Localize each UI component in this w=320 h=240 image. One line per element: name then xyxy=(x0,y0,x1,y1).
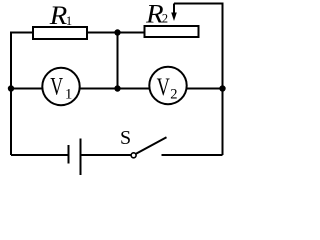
svg-text:1: 1 xyxy=(65,87,73,103)
wire battery to switch xyxy=(81,154,132,156)
slider arrow of R2 xyxy=(171,4,177,22)
wire top-left horizontal xyxy=(10,32,33,34)
wire middle vertical xyxy=(117,33,119,89)
node top junction xyxy=(114,29,120,35)
label R2 xyxy=(145,0,168,28)
voltmeter V2 xyxy=(149,67,186,104)
wire junction to R2 xyxy=(118,32,145,34)
wire top-right horizontal xyxy=(174,3,223,5)
wire V2 to right xyxy=(187,88,223,90)
svg-text:V: V xyxy=(50,71,63,100)
node right middle xyxy=(219,85,225,91)
wire middle horizontal left xyxy=(11,88,43,90)
node left middle xyxy=(8,85,14,91)
node middle junction xyxy=(114,85,120,91)
wire bottom-right horizontal xyxy=(162,154,223,156)
wire left vertical xyxy=(10,33,12,156)
resistor R1 xyxy=(33,27,87,39)
wire bottom-left horizontal xyxy=(11,154,69,156)
svg-text:2: 2 xyxy=(162,11,168,26)
svg-text:S: S xyxy=(120,127,131,149)
resistor R2 (rheostat) xyxy=(145,26,199,37)
battery positive plate (long) xyxy=(80,139,82,176)
svg-text:R: R xyxy=(49,1,68,30)
battery negative plate (short) xyxy=(68,145,70,164)
wire right vertical xyxy=(222,3,224,156)
svg-text:1: 1 xyxy=(66,14,72,28)
wire R1 to top junction xyxy=(87,32,118,34)
label R1 xyxy=(49,1,72,30)
svg-text:V: V xyxy=(157,72,171,101)
wire between V1 and V2 xyxy=(80,88,150,90)
switch S pivot xyxy=(131,153,136,158)
svg-text:2: 2 xyxy=(170,87,177,103)
switch S blade xyxy=(136,137,167,154)
voltmeter V1 xyxy=(42,68,79,105)
